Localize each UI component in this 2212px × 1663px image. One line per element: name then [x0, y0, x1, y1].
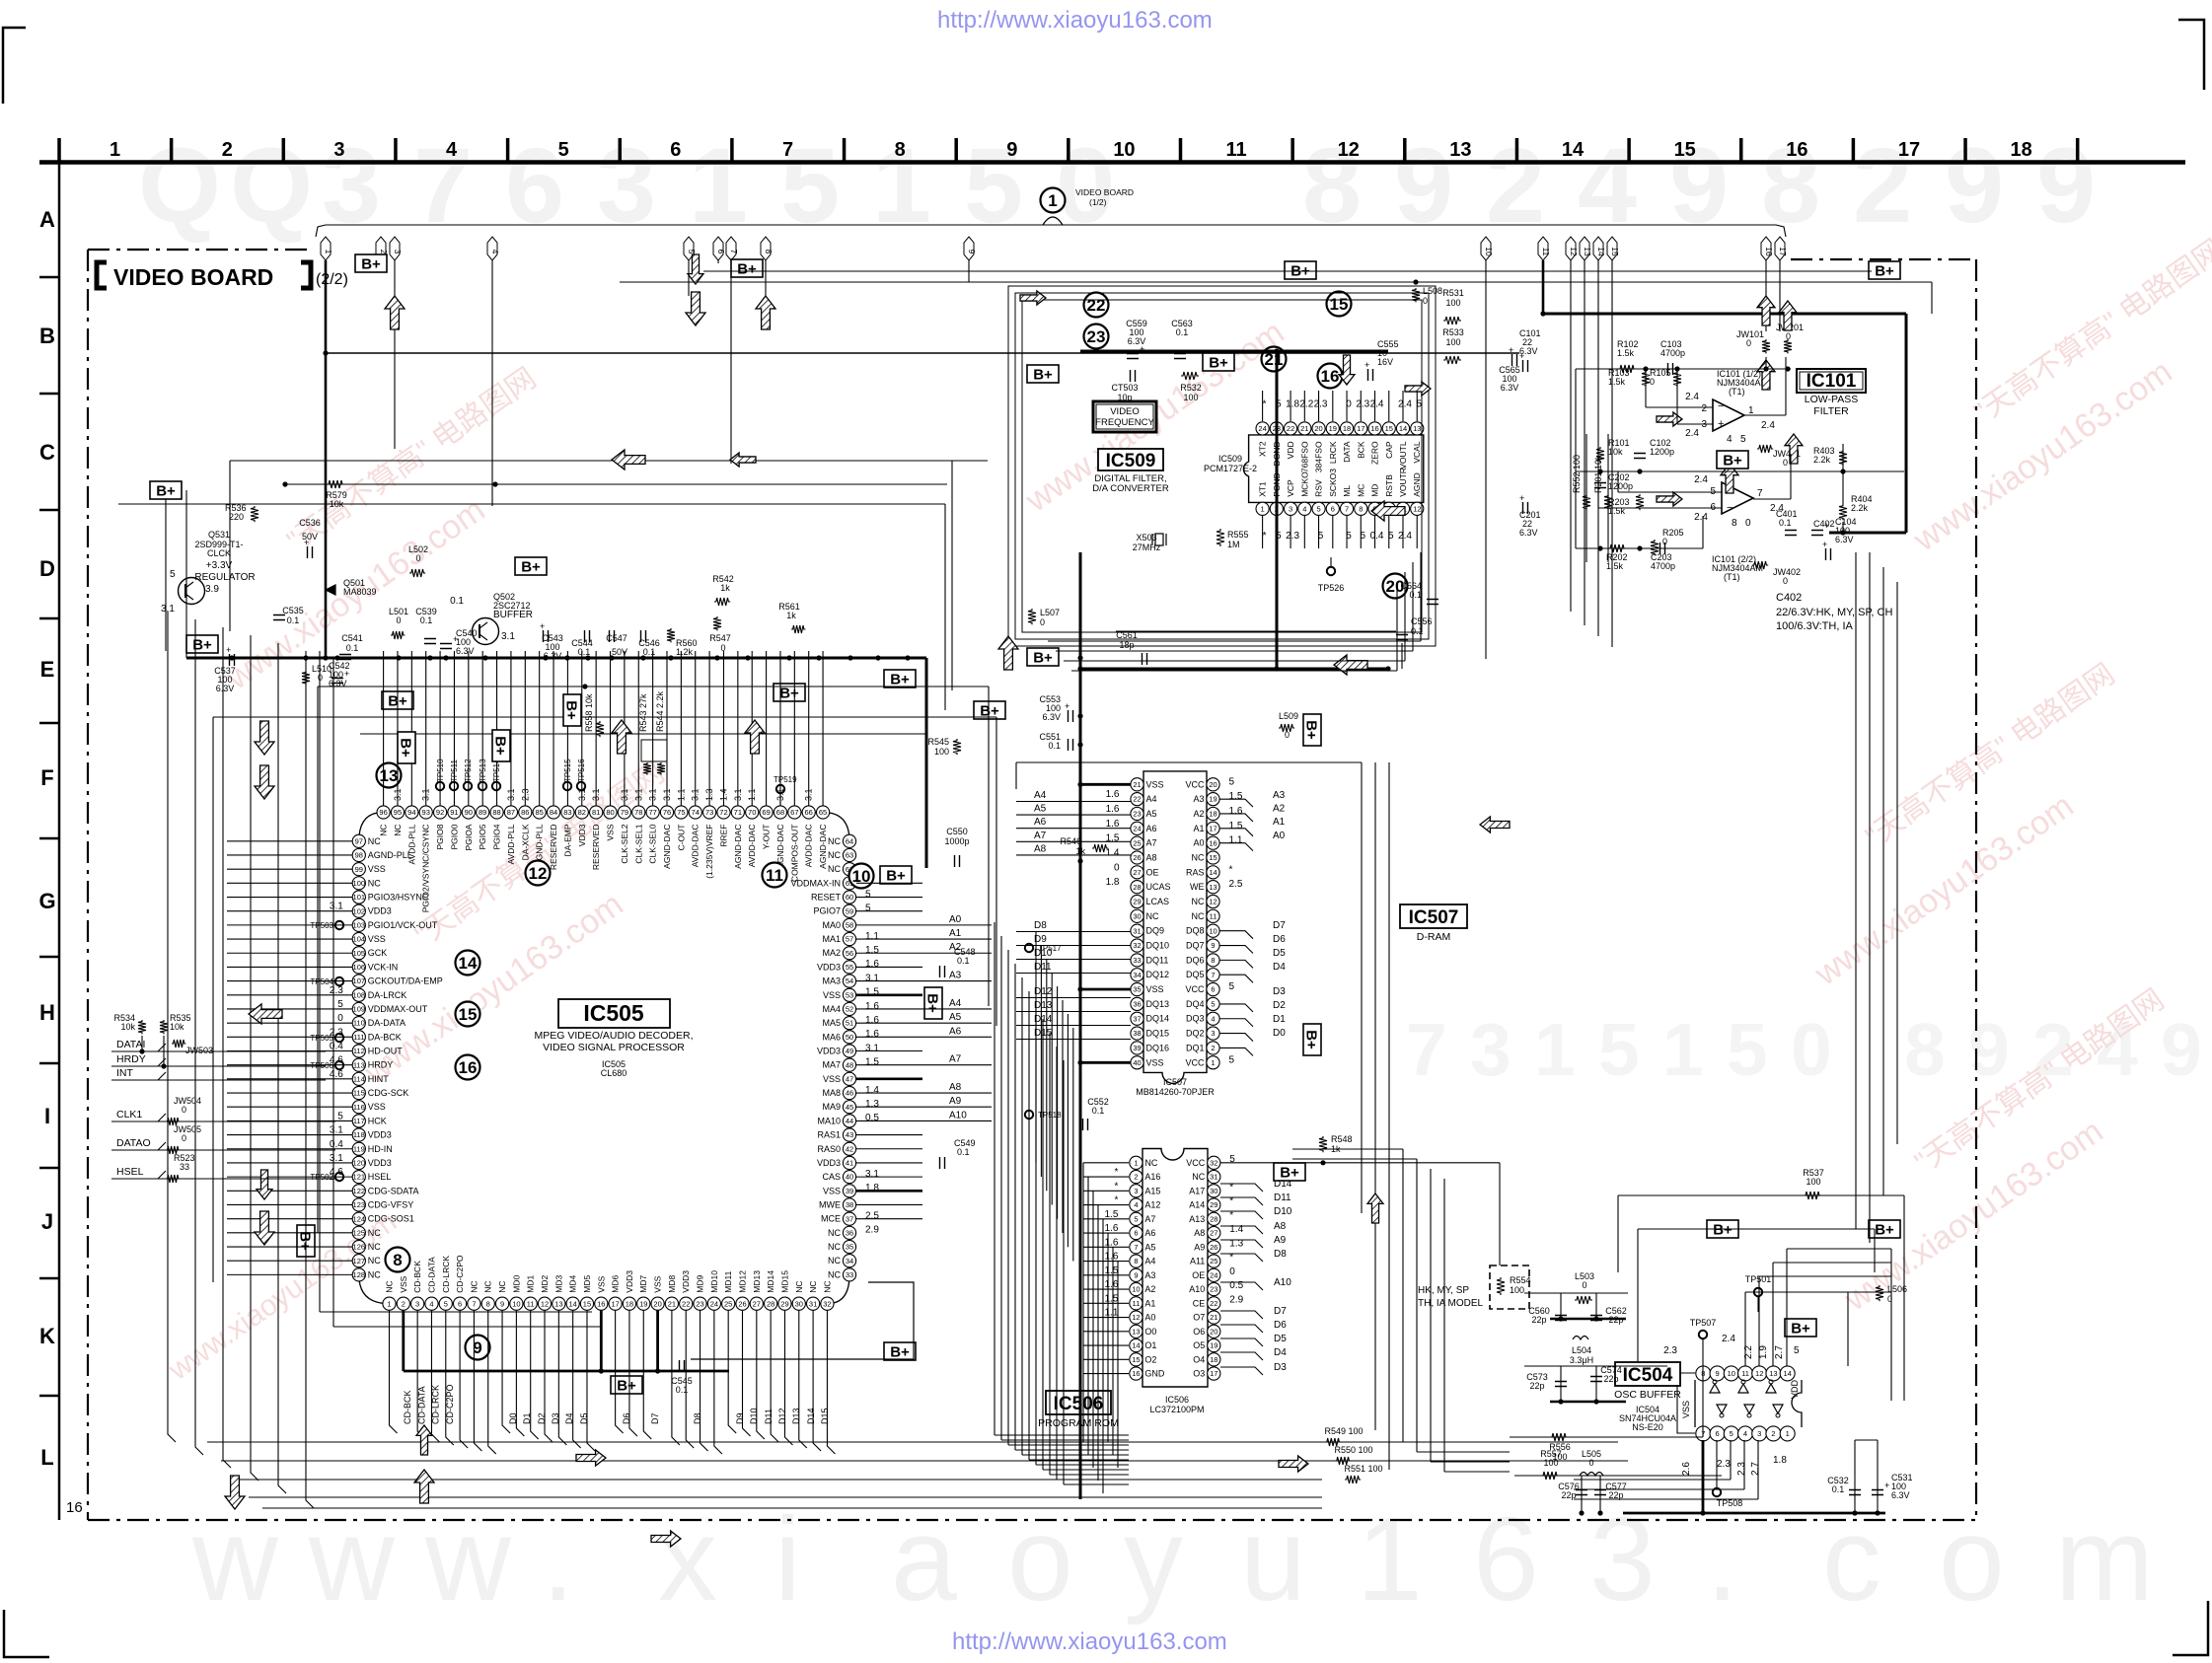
svg-text:12: 12	[529, 864, 548, 883]
svg-text:B+: B+	[1280, 1165, 1299, 1182]
svg-text:11: 11	[1133, 1299, 1141, 1308]
arrow right C555	[1405, 382, 1431, 396]
svg-text:110: 110	[353, 1019, 365, 1028]
svg-text:A1: A1	[1193, 824, 1204, 833]
svg-text:−: −	[1718, 400, 1724, 412]
svg-text:33: 33	[180, 1162, 189, 1172]
svg-text:4: 4	[1302, 504, 1306, 513]
svg-text:B+: B+	[521, 559, 541, 576]
svg-text:5: 5	[1740, 434, 1746, 445]
svg-text:100: 100	[1445, 298, 1460, 308]
svg-text:5: 5	[1229, 1054, 1235, 1065]
svg-text:1.8: 1.8	[1106, 877, 1120, 888]
svg-text:0.1: 0.1	[957, 1147, 970, 1157]
svg-text:14: 14	[1399, 424, 1407, 433]
svg-text:3.1: 3.1	[804, 788, 814, 801]
wire JW bundle verticals	[141, 1036, 143, 1051]
svg-text:6.3V: 6.3V	[456, 646, 475, 656]
svg-text:10: 10	[512, 1299, 520, 1308]
svg-text:12: 12	[1209, 898, 1217, 906]
IC506 right pin stub wires	[1220, 1184, 1263, 1192]
svg-text:9: 9	[1945, 125, 2004, 245]
svg-text:8: 8	[486, 1299, 490, 1308]
IC506 left pin connection wires	[1083, 1162, 1129, 1164]
svg-text:5: 5	[865, 889, 871, 900]
svg-text:100: 100	[1445, 337, 1460, 347]
TP508	[1713, 1488, 1721, 1496]
svg-text:124: 124	[353, 1214, 366, 1223]
svg-text:73: 73	[705, 808, 713, 817]
svg-text:35: 35	[846, 1243, 853, 1252]
svg-text:87: 87	[507, 808, 515, 817]
IC505 right misc pin wires	[856, 882, 922, 884]
svg-text:A5: A5	[949, 1012, 962, 1023]
svg-text:*: *	[1114, 1167, 1118, 1178]
svg-text:17: 17	[1778, 247, 1788, 256]
svg-text:2: 2	[1701, 403, 1707, 414]
svg-text:IC101: IC101	[1806, 371, 1857, 392]
svg-text:D1: D1	[1273, 1014, 1286, 1025]
svg-text:12: 12	[541, 1299, 549, 1308]
B+ box L502	[515, 557, 547, 576]
svg-text:56: 56	[846, 949, 853, 958]
svg-text:A6: A6	[1146, 824, 1157, 833]
svg-text:122: 122	[353, 1187, 366, 1195]
svg-text:3: 3	[597, 125, 656, 245]
arrow right bottom bus2	[1279, 1456, 1308, 1472]
B+ box F mid2	[774, 684, 805, 702]
svg-text:8: 8	[1732, 518, 1737, 529]
svg-text:29: 29	[1210, 1200, 1217, 1209]
svg-text:+: +	[1822, 540, 1827, 549]
svg-text:D13: D13	[1034, 1000, 1053, 1011]
svg-text:27MHz: 27MHz	[1133, 542, 1161, 552]
svg-text:DATAI: DATAI	[116, 1039, 145, 1050]
svg-text:DQ8: DQ8	[1186, 926, 1205, 936]
svg-text:64: 64	[846, 836, 853, 845]
svg-text:MD11: MD11	[723, 1270, 733, 1292]
svg-text:I: I	[44, 1104, 50, 1128]
wire opamp2 in	[1618, 491, 1722, 493]
svg-text:1.3: 1.3	[865, 1099, 879, 1110]
svg-text:15: 15	[459, 1005, 478, 1024]
svg-text:100: 100	[1510, 1285, 1524, 1295]
svg-text:C535: C535	[282, 606, 304, 615]
svg-text:1.5: 1.5	[865, 1057, 879, 1068]
svg-text:6.3V: 6.3V	[1891, 1490, 1910, 1500]
svg-text:X503: X503	[1136, 533, 1156, 542]
svg-text:82: 82	[578, 808, 586, 817]
svg-text:A6: A6	[1034, 817, 1047, 828]
svg-text:VSS: VSS	[653, 1275, 663, 1292]
wire R556 row	[1510, 1436, 1703, 1438]
svg-text:16V: 16V	[1377, 357, 1393, 367]
svg-text:(1.235V)VREF: (1.235V)VREF	[704, 825, 714, 879]
svg-text:5: 5	[337, 1111, 343, 1121]
svg-text:6.3V: 6.3V	[1519, 528, 1538, 538]
svg-text:95: 95	[394, 808, 402, 817]
svg-text:118: 118	[353, 1130, 365, 1139]
svg-text:89: 89	[479, 808, 486, 817]
svg-text:CL680: CL680	[601, 1068, 627, 1078]
svg-text:A3: A3	[1144, 1270, 1155, 1280]
svg-text:D11: D11	[1274, 1193, 1291, 1203]
svg-text:DA-XCLK: DA-XCLK	[520, 824, 530, 860]
svg-text:68: 68	[776, 808, 784, 817]
svg-text:24: 24	[1210, 1270, 1217, 1279]
svg-text:HSEL: HSEL	[368, 1172, 392, 1182]
svg-text:1: 1	[1134, 1158, 1138, 1167]
svg-text:28: 28	[767, 1299, 774, 1308]
svg-text:VSS: VSS	[596, 1275, 606, 1292]
B+ box IC509 left	[1027, 365, 1059, 384]
svg-text:D6: D6	[622, 1412, 631, 1424]
svg-text:103: 103	[353, 920, 366, 929]
svg-text:86: 86	[521, 808, 529, 817]
svg-text:10: 10	[1209, 926, 1217, 935]
svg-text:23: 23	[696, 1299, 703, 1308]
svg-text:106: 106	[353, 963, 366, 972]
svg-text:A6: A6	[949, 1026, 962, 1037]
arrow right bottom right	[651, 1531, 681, 1547]
svg-text:VSS: VSS	[1146, 779, 1164, 789]
svg-text:VDD3: VDD3	[625, 1270, 634, 1293]
svg-text:18: 18	[1209, 810, 1217, 819]
svg-text:67: 67	[790, 808, 798, 817]
svg-text:20: 20	[1209, 780, 1217, 789]
svg-text:LC372100PM: LC372100PM	[1149, 1405, 1204, 1414]
svg-text:B+: B+	[617, 1378, 636, 1395]
svg-text:IC506: IC506	[1165, 1395, 1189, 1405]
svg-text:2.4: 2.4	[1694, 474, 1708, 485]
svg-text:7: 7	[472, 1299, 476, 1308]
board outline top-right dash-dot	[1791, 258, 1976, 260]
svg-text:4700p: 4700p	[1651, 561, 1675, 571]
svg-text:0: 0	[182, 1105, 186, 1115]
svg-text:105: 105	[353, 949, 366, 958]
svg-text:A11: A11	[1190, 1257, 1205, 1266]
svg-text:AVDD-PLL: AVDD-PLL	[406, 824, 416, 864]
svg-text:1.6: 1.6	[1104, 1237, 1118, 1248]
wires under IC509	[1048, 640, 1421, 642]
svg-text:w: w	[191, 1493, 278, 1626]
B+ box bottom right2	[1869, 1220, 1900, 1239]
inductor L506	[1876, 1285, 1883, 1301]
svg-text:NC: NC	[828, 1228, 841, 1238]
svg-text:A4: A4	[949, 998, 962, 1009]
svg-text:HRDY: HRDY	[116, 1053, 146, 1065]
svg-text:2.4: 2.4	[1370, 398, 1384, 409]
svg-text:G: G	[38, 889, 55, 913]
transistor Q502	[473, 618, 499, 645]
op-amp IC101b	[1722, 482, 1753, 514]
svg-text:R545: R545	[927, 737, 949, 747]
svg-text:29: 29	[780, 1299, 788, 1308]
svg-text:3: 3	[1289, 504, 1292, 513]
svg-text:MA5: MA5	[822, 1018, 841, 1028]
svg-text:CDG-SOS1: CDG-SOS1	[368, 1214, 414, 1224]
svg-text:i: i	[774, 1493, 801, 1626]
svg-text:PGIO2/VSYNC/CSYNC: PGIO2/VSYNC/CSYNC	[421, 825, 431, 913]
svg-text:3.1: 3.1	[330, 1153, 343, 1164]
svg-text:VSS: VSS	[823, 1186, 841, 1195]
svg-text:16: 16	[1209, 838, 1217, 847]
svg-text:H: H	[39, 1000, 55, 1025]
svg-text:5: 5	[1229, 981, 1235, 992]
svg-text:21: 21	[1133, 780, 1141, 789]
svg-text:B+: B+	[1303, 1030, 1320, 1049]
arrow up conn3	[385, 296, 405, 329]
svg-text:RAS: RAS	[1186, 867, 1205, 877]
svg-text:16: 16	[597, 1299, 605, 1308]
svg-text:VSS: VSS	[823, 990, 841, 1000]
svg-text:R546: R546	[1060, 836, 1081, 846]
svg-text:28: 28	[1210, 1214, 1217, 1223]
svg-text:126: 126	[353, 1243, 366, 1252]
svg-text:(1/2): (1/2)	[1089, 197, 1107, 207]
arrow down IC509 mid	[1339, 355, 1355, 385]
svg-text:CAP: CAP	[1384, 441, 1394, 459]
svg-text:119: 119	[353, 1144, 365, 1153]
svg-text:14: 14	[1209, 868, 1217, 877]
svg-text:VDD: VDD	[1790, 1379, 1800, 1399]
corner mark bottom-left	[4, 1610, 49, 1657]
svg-text:16: 16	[66, 1499, 83, 1516]
TP501	[1754, 1288, 1762, 1296]
B+ box C553 area	[884, 670, 916, 688]
corner mark top-left	[3, 28, 26, 104]
svg-text:D9: D9	[735, 1412, 745, 1424]
svg-text:11: 11	[527, 1299, 535, 1308]
IC507 name box	[1400, 904, 1467, 928]
svg-text:BUFFER: BUFFER	[493, 610, 533, 620]
svg-text:5: 5	[170, 569, 176, 580]
svg-text:1.6: 1.6	[1104, 1279, 1118, 1290]
svg-text:Q531: Q531	[208, 530, 230, 540]
svg-text:XT1: XT1	[1258, 481, 1268, 497]
svg-text:MC: MC	[1356, 484, 1365, 497]
svg-text:29: 29	[1133, 898, 1141, 906]
IC505 MA to A-bus stub wires	[856, 924, 992, 926]
svg-text:A1: A1	[1144, 1298, 1155, 1308]
arrow up F rows	[612, 720, 631, 754]
svg-text:A7: A7	[1146, 838, 1157, 848]
long wire y286	[620, 281, 1932, 283]
svg-text:ZERO: ZERO	[1370, 441, 1380, 465]
svg-text:16: 16	[1764, 247, 1774, 256]
B+ box K left	[297, 1225, 316, 1257]
svg-text:15: 15	[1610, 247, 1620, 256]
svg-text:0.1: 0.1	[1176, 327, 1189, 337]
svg-text:VCK-IN: VCK-IN	[368, 962, 399, 972]
svg-text:MA0: MA0	[822, 920, 841, 930]
svg-text:VCC: VCC	[1185, 984, 1205, 994]
svg-text:2: 2	[379, 250, 389, 254]
svg-text:VSS: VSS	[368, 934, 386, 944]
svg-text:100/6.3V:TH, IA: 100/6.3V:TH, IA	[1776, 620, 1854, 632]
B+ box below IC505	[611, 1376, 642, 1395]
svg-text:0: 0	[1746, 338, 1751, 348]
svg-text:54: 54	[846, 976, 853, 985]
svg-text:38: 38	[846, 1200, 853, 1209]
wire L504 row	[1524, 1365, 1667, 1367]
svg-text:18: 18	[1343, 424, 1351, 433]
svg-text:1.5: 1.5	[1229, 791, 1243, 802]
svg-text:1.5: 1.5	[1106, 833, 1120, 844]
svg-text:+: +	[453, 634, 458, 644]
svg-text:A7: A7	[949, 1054, 962, 1065]
svg-text:22p: 22p	[1603, 1374, 1618, 1384]
svg-text:125: 125	[353, 1228, 366, 1237]
svg-text:5: 5	[687, 250, 697, 254]
svg-text:B+: B+	[1033, 650, 1053, 667]
svg-text:1: 1	[1048, 191, 1057, 210]
corner mark top-right	[2178, 20, 2204, 90]
IC509 pin comb wires	[1262, 391, 1264, 421]
svg-text:+: +	[540, 621, 545, 631]
svg-text:3.1: 3.1	[501, 631, 515, 642]
svg-text:VSS: VSS	[1146, 984, 1164, 994]
svg-text:115: 115	[353, 1089, 365, 1098]
svg-text:14: 14	[568, 1299, 576, 1308]
svg-text:GCKOUT/DA-EMP: GCKOUT/DA-EMP	[368, 976, 443, 986]
svg-text:3: 3	[1470, 1008, 1512, 1091]
svg-text:78: 78	[634, 808, 642, 817]
svg-text:27: 27	[753, 1299, 761, 1308]
svg-text:UCAS: UCAS	[1146, 882, 1171, 892]
svg-text:MD1: MD1	[526, 1274, 536, 1292]
svg-text:D5: D5	[579, 1412, 589, 1424]
svg-text:22p: 22p	[1531, 1315, 1546, 1325]
svg-text:55: 55	[846, 963, 853, 972]
balloon 1 VIDEO BOARD 1/2	[1041, 188, 1066, 213]
svg-text:1: 1	[110, 139, 120, 161]
svg-text:A10: A10	[1189, 1284, 1205, 1294]
B+ box bottom right1	[1707, 1220, 1738, 1239]
svg-text:4: 4	[446, 139, 458, 161]
svg-text:MD9: MD9	[696, 1274, 705, 1292]
svg-text:6: 6	[1473, 1493, 1539, 1626]
svg-text:92: 92	[436, 808, 444, 817]
svg-text:DA-EMP: DA-EMP	[562, 824, 572, 856]
svg-text:84: 84	[550, 808, 557, 817]
svg-text:768FSO: 768FSO	[1299, 441, 1309, 472]
svg-text:25: 25	[1210, 1257, 1217, 1265]
svg-text:0: 0	[1588, 1458, 1593, 1468]
svg-text:MA6: MA6	[822, 1032, 841, 1042]
svg-text:6: 6	[1211, 985, 1215, 994]
svg-text:1: 1	[1211, 1058, 1215, 1067]
svg-text:2.7: 2.7	[1774, 1345, 1785, 1359]
svg-text:DQ4: DQ4	[1186, 999, 1205, 1009]
svg-text:9: 9	[2161, 1008, 2202, 1091]
svg-text:123: 123	[353, 1200, 366, 1209]
svg-text:15: 15	[1330, 295, 1349, 314]
svg-text:J: J	[41, 1209, 53, 1234]
svg-text:2.4: 2.4	[1398, 398, 1412, 409]
svg-text:31: 31	[1210, 1173, 1217, 1182]
svg-text:HRDY: HRDY	[368, 1060, 394, 1070]
B+ box upper-left	[150, 481, 182, 500]
svg-text:23: 23	[1133, 810, 1141, 819]
svg-text:13: 13	[1449, 139, 1471, 161]
far right long verticals	[1855, 552, 1857, 1229]
svg-text:C550: C550	[946, 827, 968, 836]
svg-text:L: L	[40, 1445, 53, 1470]
svg-text:D4: D4	[1273, 962, 1286, 973]
svg-text:MA2: MA2	[822, 948, 841, 958]
svg-text:A1: A1	[1273, 817, 1286, 828]
wire R552 col	[1585, 434, 1587, 562]
resistors R549 R550 R551	[1325, 1438, 1341, 1446]
svg-text:1.2k: 1.2k	[676, 647, 694, 657]
svg-text:2.4: 2.4	[1685, 428, 1699, 439]
svg-text:0.1: 0.1	[1832, 1484, 1845, 1494]
svg-text:5: 5	[1730, 1429, 1733, 1438]
svg-text:13: 13	[1769, 1369, 1777, 1378]
IC507 VSS thick stubs	[1080, 783, 1131, 786]
svg-text:42: 42	[846, 1144, 853, 1153]
svg-text:1.6: 1.6	[865, 959, 879, 970]
svg-text:70: 70	[748, 808, 756, 817]
svg-text:A0: A0	[1193, 838, 1204, 848]
svg-text:0.1: 0.1	[643, 647, 656, 657]
arrow up IC101b	[1757, 360, 1775, 390]
bottom bus horizontal wires	[207, 1441, 1322, 1443]
svg-text:*: *	[1263, 531, 1267, 542]
svg-text:VDD3: VDD3	[368, 1130, 392, 1140]
svg-text:DATA: DATA	[1342, 441, 1352, 463]
svg-text:2.3: 2.3	[1314, 398, 1328, 409]
svg-text:E: E	[40, 657, 55, 682]
arrow right opamp2	[1657, 492, 1682, 506]
svg-text:MWE: MWE	[819, 1199, 841, 1209]
IC504 riser wires	[1744, 1292, 1746, 1366]
svg-text:CE: CE	[1193, 1298, 1206, 1308]
svg-text:3.1: 3.1	[633, 788, 643, 801]
svg-text:PGIOA: PGIOA	[464, 824, 474, 850]
svg-text:14: 14	[1132, 1341, 1140, 1350]
svg-text:D-RAM: D-RAM	[1417, 931, 1450, 943]
transistor Q531	[179, 578, 205, 605]
svg-text:0.1: 0.1	[1779, 518, 1792, 528]
svg-text:A8: A8	[1274, 1221, 1287, 1232]
svg-text:MB814260-70PJER: MB814260-70PJER	[1136, 1087, 1215, 1097]
svg-text:B+: B+	[1303, 720, 1320, 740]
svg-text:28: 28	[1133, 883, 1141, 892]
svg-text:116: 116	[353, 1103, 365, 1112]
svg-text:A5: A5	[1034, 804, 1047, 815]
svg-text:2.5: 2.5	[1229, 879, 1243, 890]
svg-text:B+: B+	[156, 483, 176, 500]
svg-text:MA3: MA3	[822, 976, 841, 986]
svg-text:13: 13	[1132, 1327, 1140, 1336]
svg-text:NC: NC	[368, 836, 381, 846]
svg-text:C-OUT: C-OUT	[676, 825, 686, 851]
svg-text:2.4: 2.4	[1722, 1334, 1735, 1344]
svg-text:8: 8	[393, 1251, 402, 1269]
svg-text:0.1: 0.1	[450, 596, 464, 607]
svg-text:BCK: BCK	[1356, 441, 1365, 459]
svg-text:NC: NC	[794, 1280, 804, 1292]
svg-text:13: 13	[554, 1299, 562, 1308]
svg-text:o: o	[1939, 1493, 2005, 1626]
svg-text:63: 63	[846, 851, 853, 860]
svg-text:3.1: 3.1	[865, 973, 879, 983]
svg-text:59: 59	[846, 906, 853, 915]
svg-text:3.1: 3.1	[865, 1043, 879, 1053]
svg-text:12: 12	[1755, 1369, 1763, 1378]
